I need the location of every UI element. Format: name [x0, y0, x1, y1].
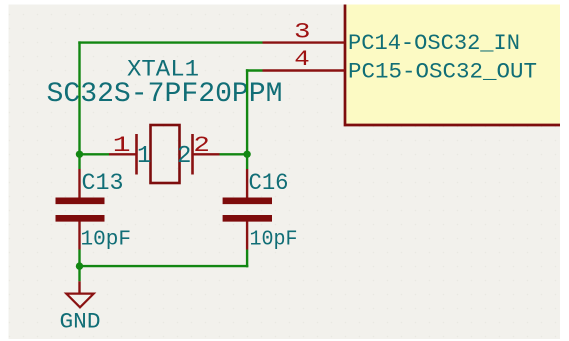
svg-text:1: 1 — [113, 133, 131, 158]
wire below C13 — [78, 250, 80, 282]
ground stub wire — [78, 281, 80, 293]
svg-text:4: 4 — [294, 47, 310, 72]
crystal Y1 pin 1 line — [109, 153, 137, 155]
wire pin4 horizontal — [246, 69, 263, 71]
svg-text:3: 3 — [294, 20, 311, 45]
svg-text:2: 2 — [177, 143, 191, 170]
wire below C16 — [246, 250, 248, 268]
junction at crystal pin 2 — [243, 151, 250, 158]
crystal Y1 pin 2 line — [193, 153, 220, 155]
capacitor C13 bottom pin — [78, 222, 80, 250]
svg-text:C13: C13 — [82, 170, 124, 196]
junction at crystal pin 1 — [76, 151, 83, 158]
capacitor C13 top plate — [56, 198, 105, 205]
svg-text:1: 1 — [137, 143, 151, 170]
pin 4 line of IC — [263, 69, 346, 71]
svg-text:GND: GND — [60, 308, 101, 334]
svg-text:C16: C16 — [249, 170, 289, 196]
wire left vertical — [78, 41, 80, 169]
capacitor C13 top pin — [78, 169, 80, 198]
capacitor C16 top plate — [223, 198, 272, 205]
crystal XTAL1 left electrode — [135, 134, 138, 175]
wire right vertical — [246, 69, 248, 169]
ground symbol triangle — [66, 294, 93, 308]
crystal XTAL1 right electrode — [191, 134, 194, 175]
wire top horizontal from left vertical to pin 3 — [78, 41, 262, 43]
svg-text:PC15-OSC32_OUT: PC15-OSC32_OUT — [348, 60, 537, 85]
wire crystal pin1 to junction — [80, 153, 110, 155]
wire bottom horizontal — [80, 265, 249, 267]
capacitor C13 bottom plate — [56, 215, 105, 222]
svg-text:10pF: 10pF — [81, 228, 132, 252]
svg-text:2: 2 — [193, 133, 210, 158]
capacitor C16 top pin — [246, 169, 248, 198]
capacitor C16 bottom plate — [223, 215, 272, 222]
pin 3 line of IC — [263, 41, 346, 43]
svg-text:10pF: 10pF — [250, 228, 298, 252]
IC U1 symbol body (yellow block, partially visible) — [345, 5, 560, 126]
crystal XTAL1 body rectangle — [151, 125, 180, 183]
junction at bottom wire / GND — [76, 262, 83, 269]
svg-text:PC14-OSC32_IN: PC14-OSC32_IN — [348, 31, 520, 56]
capacitor C16 bottom pin — [246, 222, 248, 250]
wire crystal pin2 to junction — [220, 153, 248, 155]
